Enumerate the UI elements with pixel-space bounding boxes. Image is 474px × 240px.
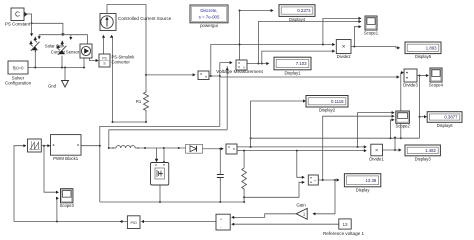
display block Display1 value 7.103 <box>274 57 311 70</box>
block PS-Simulink Converter <box>99 54 110 67</box>
svg-text:v: v <box>243 65 245 69</box>
wire branch to Scope3 input 1 <box>44 146 58 193</box>
capacitor <box>217 174 224 176</box>
scope Scope3 <box>61 189 73 203</box>
wire voltage measurement top to Display4 <box>240 11 273 61</box>
wire riser to Scope2 input 1 <box>358 113 394 147</box>
scope Scope4 <box>430 68 442 82</box>
block current sensor <box>80 44 92 58</box>
svg-text:Display4: Display4 <box>289 17 306 22</box>
wire voltage measurement output to Display1 <box>247 63 268 65</box>
svg-text:Configuration: Configuration <box>5 81 32 86</box>
wire R1 bottom to y=122.6 link <box>145 112 147 122</box>
display block Display value 13.38 <box>344 174 380 187</box>
wire irradiance link y=23.3 <box>32 23 63 35</box>
wire Divide2 output to Display5 and Scope1 input 3 <box>351 47 399 48</box>
svg-text:Scope4: Scope4 <box>429 82 444 87</box>
svg-text:PS Constant: PS Constant <box>5 22 31 27</box>
svg-text:Reference voltage 1: Reference voltage 1 <box>323 231 365 236</box>
load resistor <box>242 168 247 190</box>
block powergui <box>190 5 228 23</box>
svg-text:Divide1: Divide1 <box>369 156 384 161</box>
block bottom sum <box>216 214 230 230</box>
block MOSFET switch <box>151 163 169 186</box>
svg-text:Display1: Display1 <box>284 70 301 75</box>
wire load resistor bottom to rail <box>243 190 245 202</box>
wire MOSFET gate drop with bold arrow <box>156 148 158 159</box>
wire branch to Scope3 input 2 <box>56 198 59 221</box>
svg-text:Current Sensor: Current Sensor <box>51 49 80 54</box>
display block Display3 value 1.482 <box>405 145 440 156</box>
gain triangle <box>296 208 307 219</box>
scope Scope1 <box>365 16 377 30</box>
wire signal bus y=138.2 <box>251 137 420 139</box>
wire current signal riser to Divide2 input 1 <box>211 45 334 77</box>
wire current signal y=77 to Divide3 input 2 <box>220 76 399 78</box>
wire R1 junction to measurement block input <box>146 74 194 76</box>
wire sum signal riser to Scope2 input 2 <box>323 116 394 180</box>
wire load voltage sense to sum input 2 <box>244 182 304 197</box>
solar cell 2 <box>58 46 67 55</box>
svg-text:s = 7e-005: s = 7e-005 <box>199 15 220 20</box>
svg-text:Scope2: Scope2 <box>395 124 410 129</box>
block Divide3 <box>404 69 417 82</box>
wire sawtooth output to PWM input <box>41 145 49 147</box>
block sum power <box>308 175 318 185</box>
wire current sensor output to PS-Simulink converter <box>90 58 98 61</box>
svg-text:1.482: 1.482 <box>425 148 436 153</box>
display block Display5 value 1.893 <box>405 42 441 54</box>
wire tap into solar cell 2 right pin <box>70 35 72 39</box>
svg-text:PID: PID <box>131 221 138 225</box>
svg-text:0.1118: 0.1118 <box>331 99 344 104</box>
wire voltage signal up and across to Scope1 input 2 <box>258 22 360 64</box>
wire sense up to Display2 <box>251 101 305 147</box>
wire riser to Scope2 input 3 <box>391 120 394 138</box>
block Voltage Measurement <box>236 60 247 70</box>
wire power rail y=148 inductor input <box>109 147 116 149</box>
svg-text:Display: Display <box>356 187 371 192</box>
resistor R1 <box>144 90 149 112</box>
block PS measurement <box>198 71 209 80</box>
wire converter output up to controlled current source port <box>103 36 105 54</box>
block Divide2 <box>336 40 351 54</box>
wire output I rail y=150.6 to Divide1 input 2 <box>237 150 365 152</box>
svg-text:PS: PS <box>102 57 107 61</box>
block Solver Configuration <box>8 61 28 74</box>
wire measurement block output elbow up to voltage measurement input 1 <box>209 63 231 76</box>
wire capacitor drop <box>219 149 221 175</box>
block Controlled Current Source <box>100 14 116 31</box>
ground symbol <box>62 81 69 88</box>
block output current measurement <box>226 144 237 154</box>
svg-text:Display5: Display5 <box>415 54 432 59</box>
block PS Constant C <box>11 8 24 21</box>
wire solar cell 2 bottom to gnd bus <box>61 56 63 68</box>
svg-text:×: × <box>375 148 378 154</box>
block PWM Block1 <box>51 135 82 156</box>
svg-text:Display2: Display2 <box>319 108 336 113</box>
wire Divide1 output riser <box>394 138 396 151</box>
svg-text:Display3: Display3 <box>415 156 432 161</box>
wire MOSFET drain drop <box>163 148 165 162</box>
svg-text:Converter: Converter <box>112 60 131 65</box>
block sawtooth source <box>28 139 42 152</box>
wire solar top bus y=34.7 <box>39 34 87 36</box>
svg-text:Scope3: Scope3 <box>60 203 75 208</box>
wire MOSFET source to bottom rail <box>159 185 161 202</box>
svg-text:Divide2: Divide2 <box>337 54 352 59</box>
svg-text:Solar Cell: Solar Cell <box>45 44 63 49</box>
svg-text:7.103: 7.103 <box>296 61 307 66</box>
wire link y=122.6 <box>113 121 147 123</box>
wire gnd bus y=67.5 <box>28 67 84 69</box>
svg-text:×: × <box>342 45 346 51</box>
block PID controller <box>127 216 140 229</box>
wire sum output down to Gain input <box>314 180 335 214</box>
svg-text:Gain: Gain <box>296 202 306 207</box>
svg-text:Gnd: Gnd <box>48 84 57 89</box>
wire current source top loop to R1 <box>107 5 146 91</box>
svg-text:Scope1: Scope1 <box>364 30 379 35</box>
svg-text:Controlled Current Source: Controlled Current Source <box>118 16 172 21</box>
display block Display6 value 0.3877 <box>427 112 462 123</box>
svg-text:R1: R1 <box>136 99 142 104</box>
display block Display4 value 0.2373 <box>279 5 315 17</box>
wire riser voltage measurement input 2 <box>226 66 228 130</box>
svg-text:Display6: Display6 <box>437 123 454 128</box>
wire riser to Divide3 input 1 <box>401 73 403 139</box>
wire solar cell 1 bottom to gnd bus <box>34 51 36 67</box>
wire sum output to Display 13.38 <box>318 179 338 181</box>
scope Scope2 <box>396 111 410 123</box>
wire bottom power rail y=202 <box>100 201 244 203</box>
wire Divide3 output down to Display6 <box>419 76 421 139</box>
svg-text:Voltage Measurement: Voltage Measurement <box>216 69 263 75</box>
wire bottom sum output to PID <box>142 221 216 223</box>
inductor <box>116 146 135 148</box>
svg-text:0.3877: 0.3877 <box>444 115 458 120</box>
svg-text:C: C <box>15 12 20 19</box>
wire Gain output to bottom sum block <box>232 214 296 218</box>
block Divide1 <box>371 144 383 156</box>
svg-text:Discrete,: Discrete, <box>200 8 217 13</box>
wire ground drop <box>64 68 66 81</box>
wire load resistor top drop <box>243 151 245 168</box>
block Reference voltage constant <box>339 219 351 229</box>
wire current source right port down to link <box>112 36 114 122</box>
diode <box>186 144 203 153</box>
wire Divide3 output to Scope4 <box>417 75 428 77</box>
svg-text:1.893: 1.893 <box>426 45 437 50</box>
svg-text:13: 13 <box>342 222 348 227</box>
wire PWM output joins riser <box>81 145 100 147</box>
svg-text:PWM Block1: PWM Block1 <box>53 156 79 161</box>
wire I rail tap to sum input 1 <box>297 151 304 178</box>
wire current sensor bottom-left to bus <box>83 58 85 68</box>
svg-text:f(x)=0: f(x)=0 <box>13 65 24 70</box>
wire drop into current sensor top <box>87 35 89 44</box>
wire PS Constant output to solar cell top-left <box>24 14 32 35</box>
solar cell 1 <box>31 42 40 51</box>
wire reference voltage to bottom sum block <box>232 223 338 225</box>
wire PID output feedback to PWM sawtooth <box>14 221 127 223</box>
wire output V rail y=146.9 to Divide1 input 1 <box>237 146 365 148</box>
wire voltage branch to Divide2 input 2 <box>262 51 334 63</box>
wire mid rail y=129.8 <box>109 130 227 148</box>
svg-text:0.2373: 0.2373 <box>297 8 311 13</box>
wire diode to current measurement block <box>202 148 223 150</box>
wire riser to Scope1 input 1 and Divide2 input 1 <box>323 18 360 44</box>
svg-text:Divide3: Divide3 <box>403 83 418 88</box>
wire Divide1 output to Display3 <box>383 149 401 151</box>
svg-text:13.38: 13.38 <box>366 178 377 183</box>
svg-text:powergui: powergui <box>200 23 218 28</box>
wire inductor to diode <box>135 147 186 149</box>
display block Display2 value 0.1118 <box>306 96 348 108</box>
wire tap into solar cell 1 right pin <box>38 35 40 38</box>
wire mid rail y=126.4 <box>100 126 220 202</box>
